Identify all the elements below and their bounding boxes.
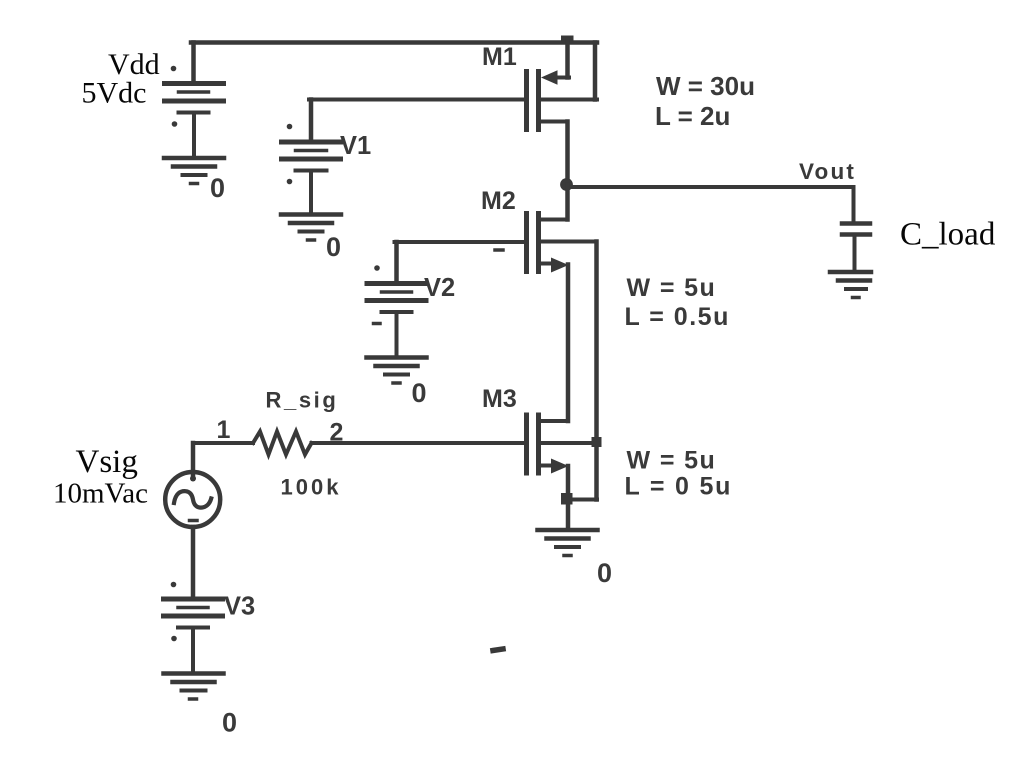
svg-text:5Vdc: 5Vdc: [82, 77, 147, 110]
wire M3 bulk stub: [541, 441, 596, 445]
battery V3 plate4: [178, 626, 208, 630]
source Vsig sine wave: [174, 491, 211, 507]
battery V1 minus dot: [287, 179, 293, 185]
svg-text:R_sig: R_sig: [266, 388, 339, 413]
node Vout junction: [560, 178, 573, 191]
wire C_load stem: [853, 235, 857, 270]
transistor M1 channel bar: [536, 72, 541, 130]
wire V2 to M2 gate: [395, 240, 525, 244]
transistor M2 channel bar: [536, 214, 541, 272]
battery V3 plate3: [164, 614, 223, 619]
battery Vdd plus dot: [171, 66, 177, 72]
wire M1 drain stub: [541, 120, 568, 124]
wire V3 stem: [191, 628, 195, 672]
transistor M2 gate bar: [524, 214, 529, 272]
source Vsig minus dash: [190, 519, 198, 523]
node Vdd-rail junction: [561, 36, 574, 45]
wire Vsig top drop: [191, 443, 196, 477]
svg-text:100k: 100k: [281, 475, 342, 500]
svg-text:Vsig: Vsig: [76, 444, 138, 480]
svg-text:10mVac: 10mVac: [53, 478, 148, 510]
svg-text:2: 2: [330, 419, 344, 447]
battery V3 plate2: [178, 606, 208, 610]
battery V2 plus dot: [374, 265, 380, 271]
wire M1 bulk horizontal: [556, 76, 569, 80]
wire M3 source vertical: [566, 466, 571, 528]
battery V1 plus dot: [287, 124, 293, 130]
wire M1 bulk to rail: [565, 40, 570, 78]
transistor M1 gate bar: [524, 72, 529, 130]
battery V1 plate2: [296, 149, 327, 153]
battery V2 plate3: [367, 298, 426, 303]
wire V1 to M1 gate: [309, 98, 524, 102]
wire rail right drop: [593, 43, 598, 100]
transistor M3 channel bar: [536, 415, 541, 473]
svg-text:V1: V1: [340, 132, 371, 160]
battery Vdd plate2: [179, 90, 209, 94]
wire M2 drain vertical: [565, 185, 570, 220]
svg-text:M1: M1: [482, 43, 517, 71]
ground under V2: [367, 358, 427, 384]
svg-text:W = 5u: W = 5u: [627, 447, 717, 475]
wire M3 source stub: [541, 464, 553, 468]
wire M3 bulk return: [568, 498, 598, 502]
ground under V3: [164, 674, 224, 700]
svg-text:0: 0: [210, 173, 225, 203]
ground under M3: [538, 530, 598, 556]
wire M2 bulk vertical: [594, 242, 599, 500]
ground under C_load: [830, 272, 871, 298]
wire Vout drop to C_load: [852, 187, 856, 222]
battery V1 plate4: [296, 169, 327, 173]
battery V2 plate2: [382, 290, 412, 294]
stray dash near M2 gate: [495, 248, 503, 252]
transistor M3 gate bar: [524, 415, 529, 473]
svg-text:M2: M2: [481, 187, 516, 215]
wire V1 drop: [309, 100, 314, 143]
wire M2 source stub: [541, 262, 553, 266]
wire Vout horizontal: [567, 185, 854, 189]
wire V1 stem: [309, 171, 313, 213]
wire V2 drop: [394, 242, 399, 284]
wire Vdd drop: [191, 43, 196, 83]
wire M2 source vertical: [566, 265, 571, 422]
svg-text:0: 0: [412, 378, 427, 408]
source Vsig circle: [165, 472, 220, 527]
wire top rail Vdd: [191, 40, 597, 45]
svg-text:W = 30u: W = 30u: [656, 71, 755, 101]
svg-text:0: 0: [326, 232, 341, 262]
transistor M1 bulk arrow: [541, 70, 558, 84]
battery Vdd plate3: [165, 99, 224, 104]
source Vsig plus dot: [190, 476, 196, 482]
wire M1 source stub: [541, 98, 597, 102]
node M3 bulk junction: [592, 437, 602, 447]
node M3 source junction: [561, 493, 573, 505]
resistor R_sig zigzag: [253, 432, 312, 455]
wire V2 stem: [395, 312, 399, 356]
transistor M2 source arrow: [551, 258, 569, 273]
wire Vsig to R_sig: [193, 441, 253, 445]
svg-text:L = 2u: L = 2u: [655, 101, 730, 131]
battery V2 plate1: [367, 281, 426, 286]
transistor M3 source arrow: [551, 459, 569, 474]
svg-text:0: 0: [222, 708, 237, 738]
ground under V1: [281, 215, 341, 241]
svg-text:V2: V2: [424, 274, 455, 302]
svg-text:W = 5u: W = 5u: [627, 274, 717, 302]
svg-text:V3: V3: [224, 593, 255, 621]
svg-text:C_load: C_load: [900, 217, 996, 253]
svg-text:1: 1: [217, 416, 231, 444]
battery Vdd minus dot: [172, 121, 178, 127]
svg-text:L = 0 5u: L = 0 5u: [625, 473, 733, 501]
wire Vdd stem: [192, 113, 196, 157]
svg-text:M3: M3: [482, 385, 517, 413]
capacitor C_load top plate: [842, 221, 870, 226]
battery V1 plate3: [282, 157, 341, 162]
wire M2 drain stub: [541, 218, 568, 222]
ground under Vdd: [164, 158, 224, 184]
svg-text:L = 0.5u: L = 0.5u: [625, 303, 730, 331]
wire M2 bulk stub: [541, 240, 596, 244]
svg-text:0: 0: [597, 558, 612, 588]
battery V1 plate1: [282, 140, 341, 145]
battery V3 plate1: [164, 597, 223, 602]
wire R_sig to M3 gate: [312, 441, 525, 445]
wire M3 drain stub: [541, 419, 568, 423]
battery V2 plate4: [382, 310, 412, 314]
battery V2 minus dash: [374, 322, 381, 326]
wire Vsig to V3: [191, 527, 196, 599]
battery Vdd plate1: [165, 81, 224, 86]
battery Vdd plate4: [179, 111, 209, 115]
battery V3 plus dot: [171, 582, 177, 588]
svg-text:Vout: Vout: [799, 159, 856, 184]
capacitor C_load bottom plate: [842, 232, 870, 237]
battery V3 minus dot: [171, 636, 177, 642]
wire M1 drain to Vout node: [565, 122, 570, 186]
stray mark below M3: [493, 649, 503, 651]
